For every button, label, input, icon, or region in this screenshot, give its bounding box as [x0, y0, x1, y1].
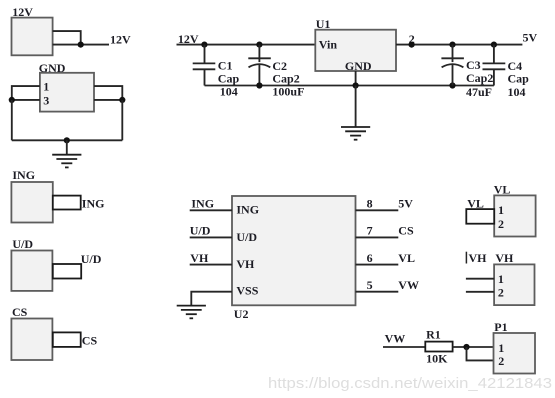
wire VW to R1 [383, 346, 425, 348]
connector J? 12V input block [12, 18, 53, 56]
svg-text:ING: ING [236, 203, 259, 217]
connector CS block [11, 305, 97, 360]
wire branch down to P1 pin2 [467, 347, 494, 360]
wire U2 pin 7 [356, 236, 399, 238]
junction left [9, 97, 15, 103]
svg-text:5: 5 [367, 278, 373, 292]
capacitor C2 curved plate [249, 64, 271, 67]
svg-text:47uF: 47uF [466, 85, 492, 99]
resistor R1 [425, 328, 452, 366]
svg-text:ING: ING [191, 197, 214, 211]
svg-text:VSS: VSS [236, 283, 258, 297]
junction at C4 top [491, 42, 497, 48]
wire C3 top lead [452, 45, 454, 63]
wire bottom horizontal [12, 139, 123, 141]
svg-text:C3: C3 [466, 58, 481, 72]
svg-text:104: 104 [508, 85, 526, 99]
wire U2 pin VH [190, 264, 232, 266]
svg-text:VH: VH [236, 257, 255, 271]
junction right [119, 97, 125, 103]
svg-text:U/D: U/D [12, 237, 33, 251]
wire U1 output to 5V [396, 44, 522, 46]
wire ground rail bottom [205, 85, 494, 87]
capacitor C3 (polarized) [441, 45, 493, 99]
capacitor C2 (polarized) [248, 45, 304, 99]
wire U2 pin 8 [356, 209, 399, 211]
svg-text:U/D: U/D [236, 230, 257, 244]
wire C3 bottom lead [452, 65, 454, 86]
wire U2 pin ING [190, 209, 232, 211]
capacitor C1 [193, 45, 240, 99]
wire C4 top lead [493, 45, 495, 64]
svg-text:Vin: Vin [319, 38, 338, 52]
wire C4 bottom lead [493, 69, 495, 85]
svg-text:VL: VL [398, 251, 415, 265]
connector U/D block [11, 237, 101, 291]
junction at U1 GND [353, 82, 359, 88]
svg-text:U1: U1 [316, 17, 331, 31]
svg-text:VH: VH [495, 251, 514, 265]
svg-text:CS: CS [82, 333, 98, 347]
wire U2 pin 6 [356, 264, 399, 266]
svg-text:8: 8 [367, 197, 373, 211]
junction at pin 2 [409, 42, 415, 48]
svg-text:GND: GND [345, 59, 372, 73]
wire U1 GND pin down [355, 71, 357, 86]
svg-text:100uF: 100uF [272, 84, 304, 98]
connector ING block [11, 168, 104, 223]
svg-text:Cap2: Cap2 [466, 71, 493, 85]
junction at C3 top [449, 42, 455, 48]
wire ground stem U1 [355, 86, 357, 128]
wire left vertical down [11, 100, 13, 140]
svg-text:https://blog.csdn.net/weixin_4: https://blog.csdn.net/weixin_42121843 [268, 376, 552, 392]
regulator U1 [315, 30, 396, 71]
capacitor C3 curved plate [442, 64, 464, 67]
svg-text:VW: VW [385, 331, 406, 345]
svg-text:2: 2 [498, 354, 504, 368]
wire C2 top lead [258, 45, 260, 63]
junction at C1 top [201, 42, 207, 48]
svg-text:CS: CS [12, 305, 28, 319]
svg-text:7: 7 [367, 224, 373, 238]
svg-text:5V: 5V [398, 197, 413, 211]
svg-text:12V: 12V [12, 5, 33, 19]
wire pin1 left [12, 86, 40, 100]
junction at C2 top [256, 42, 262, 48]
ground symbol at U2 VSS [177, 306, 206, 319]
svg-text:U/D: U/D [190, 223, 211, 237]
ground symbol below U1 [341, 127, 370, 140]
svg-text:3: 3 [43, 93, 49, 107]
svg-text:Cap2: Cap2 [272, 71, 299, 85]
svg-text:6: 6 [367, 251, 373, 265]
capacitor C4 [483, 45, 530, 99]
svg-text:U2: U2 [234, 307, 249, 321]
svg-text:U/D: U/D [81, 252, 102, 266]
IC U2 [232, 196, 356, 305]
connector P1 block [494, 320, 536, 374]
svg-text:1: 1 [498, 272, 504, 286]
svg-text:R1: R1 [426, 328, 441, 342]
connector VL block [466, 183, 535, 237]
svg-text:ING: ING [82, 196, 105, 210]
capacitor C2 flat plate [248, 57, 270, 59]
capacitor C4 plates [483, 62, 506, 64]
junction at 12V block output [78, 42, 84, 48]
wire U2 pin U/D [190, 236, 232, 238]
wire pin1 right [94, 86, 122, 100]
wire pin2 of 12V block to net 12V [53, 44, 109, 46]
svg-text:10K: 10K [426, 351, 448, 365]
svg-text:5V: 5V [523, 31, 538, 45]
wire ground stem [66, 140, 68, 154]
wire pin3 right [94, 99, 122, 101]
svg-text:P1: P1 [494, 320, 507, 334]
capacitor C3 flat plate [441, 57, 464, 59]
junction at ground tap [64, 137, 70, 143]
wire pin3 left [12, 99, 40, 101]
svg-text:VW: VW [398, 278, 419, 292]
junction at C3 bottom [449, 82, 455, 88]
wire 12V rail [177, 44, 316, 46]
svg-text:Cap: Cap [218, 71, 240, 85]
wire C1 bottom lead [204, 69, 206, 85]
svg-text:GND: GND [39, 61, 66, 75]
wire U2 pin VSS to ground [191, 292, 232, 306]
svg-text:104: 104 [220, 84, 238, 98]
svg-text:2: 2 [498, 286, 504, 300]
svg-text:CS: CS [398, 224, 414, 238]
wire U2 pin 5 [356, 291, 399, 293]
ground symbol of GND block [52, 155, 81, 168]
junction at C2 bottom [256, 82, 262, 88]
svg-text:2: 2 [498, 217, 504, 231]
svg-text:VL: VL [467, 196, 484, 210]
svg-text:1: 1 [498, 203, 504, 217]
wire C1 top lead [204, 45, 206, 64]
capacitor C1 plates [193, 62, 216, 64]
wire R1 to P1 pin1 [453, 346, 494, 348]
svg-text:1: 1 [498, 341, 504, 355]
wire right vertical down [121, 100, 123, 140]
svg-text:C1: C1 [218, 58, 233, 72]
svg-text:VH: VH [469, 251, 488, 265]
svg-text:12V: 12V [110, 33, 131, 47]
wire C2 bottom lead [258, 65, 260, 86]
junction at P1 branch [463, 344, 469, 350]
svg-text:Cap: Cap [508, 72, 530, 86]
wire pin1 of 12V block [53, 31, 81, 44]
svg-text:12V: 12V [178, 32, 199, 46]
svg-text:1: 1 [43, 80, 49, 94]
connector GND block [40, 73, 94, 112]
svg-text:VH: VH [190, 251, 209, 265]
svg-text:ING: ING [12, 168, 35, 182]
connector VH block [466, 251, 535, 305]
